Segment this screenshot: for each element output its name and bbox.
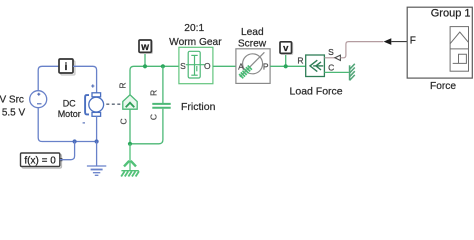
- svg-text:R: R: [149, 90, 159, 96]
- mechanical rotational reference: [121, 144, 139, 177]
- svg-text:Group 1: Group 1: [431, 7, 471, 19]
- wire group output: [391, 41, 407, 43]
- svg-text:w: w: [140, 42, 149, 53]
- wire current sensor to motor +: [73, 66, 97, 93]
- rotational friction element (house): [123, 95, 137, 109]
- svg-text:DC: DC: [63, 98, 76, 108]
- node solver junction: [73, 139, 77, 143]
- node bottom junction: [128, 142, 132, 146]
- signal arrowhead: [384, 38, 392, 45]
- wire physical signal rose: [340, 42, 383, 58]
- node w junction: [143, 64, 147, 68]
- svg-text:R: R: [297, 56, 303, 66]
- svg-text:C: C: [328, 63, 334, 73]
- wire load force S rose segment: [324, 57, 335, 59]
- svg-text:S: S: [328, 47, 334, 57]
- DC motor icon: [85, 93, 104, 117]
- svg-text:Lead: Lead: [241, 27, 264, 38]
- svg-text:5.5 V: 5.5 V: [2, 108, 26, 119]
- current sensor i: [59, 59, 75, 75]
- svg-text:i: i: [65, 61, 68, 73]
- svg-text:v: v: [283, 43, 289, 54]
- subsystem Group 1: [407, 7, 472, 78]
- voltage source V Src: [30, 91, 47, 108]
- svg-text:F: F: [410, 36, 416, 47]
- wire worm gear to lead screw: [213, 65, 236, 67]
- wire load force C to reference: [324, 71, 349, 73]
- wire motor bottom: [96, 116, 98, 141]
- speed sensor w: [139, 40, 152, 66]
- load force block: [306, 55, 325, 77]
- svg-text:P: P: [263, 61, 269, 71]
- minus mark motor: [83, 122, 85, 124]
- svg-text:S: S: [180, 61, 186, 71]
- wire source top to current sensor: [38, 66, 59, 90]
- svg-text:C: C: [118, 118, 128, 124]
- svg-text:Friction: Friction: [181, 101, 216, 113]
- svg-text:DC V Src: DC V Src: [0, 95, 24, 106]
- svg-text:R: R: [118, 82, 128, 88]
- svg-text:f(x) = 0: f(x) = 0: [24, 155, 56, 166]
- plus mark motor: [91, 84, 94, 87]
- svg-text:Screw: Screw: [238, 38, 267, 49]
- electrical ground: [87, 142, 106, 176]
- svg-text:Worm Gear: Worm Gear: [169, 37, 222, 48]
- node v junction: [284, 64, 288, 68]
- svg-text:A: A: [238, 61, 244, 71]
- wire rotational rail left corner: [130, 66, 179, 95]
- wire friction bottom: [129, 109, 131, 144]
- svg-text:O: O: [204, 61, 211, 71]
- node inertia junction: [161, 64, 165, 68]
- solver configuration f(x)=0: [21, 153, 63, 168]
- svg-text:20:1: 20:1: [184, 23, 204, 34]
- svg-text:Load Force: Load Force: [290, 86, 343, 98]
- velocity sensor v: [280, 42, 293, 67]
- friction capacitor element: [130, 66, 171, 144]
- mechanical translational reference wall: [350, 64, 355, 81]
- svg-text:C: C: [149, 114, 159, 120]
- label V Src 5.5 V: [0, 95, 26, 119]
- lead screw block: [236, 49, 270, 84]
- node motor ground junction: [95, 139, 99, 143]
- svg-text:Force: Force: [430, 81, 456, 92]
- wire lead screw to load force: [270, 65, 306, 67]
- label DC Motor: [58, 98, 81, 119]
- physical signal input triangle: [335, 55, 341, 60]
- wire solver to node: [60, 142, 75, 160]
- worm gear block: [179, 47, 213, 83]
- dashed connection motor rotor: [106, 103, 121, 105]
- wire source bottom rail: [38, 108, 96, 142]
- svg-text:Motor: Motor: [58, 109, 81, 119]
